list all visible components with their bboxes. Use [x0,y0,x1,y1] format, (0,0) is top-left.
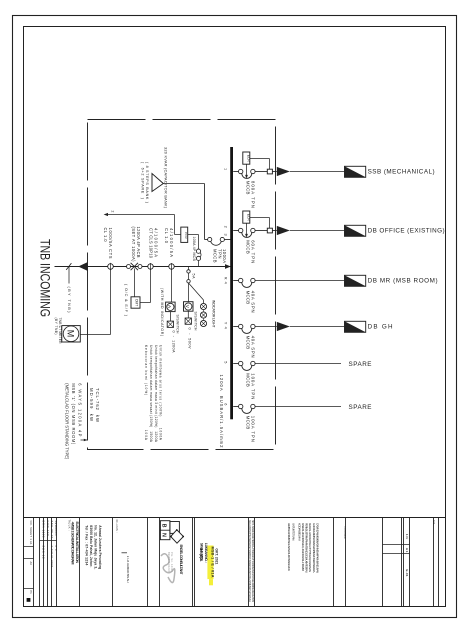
highlight drawing number [207,546,213,580]
MCCB feeder 5 right pole [251,361,255,365]
wire MCB to PFR [198,235,200,250]
svg-text:A1: A1 [405,548,409,553]
wire feeder 5 spare tail [255,363,341,365]
wire feeder 6 stub from busbar [233,406,238,408]
svg-text:DMT: DMT [135,299,139,306]
wire feeder 3 to DB symbol [255,280,344,282]
MCCB feeder 2 left pole [239,228,243,232]
title block divider 5 [56,518,58,607]
MCCB feeder 5 arc [242,365,252,370]
title block divider 8 [147,518,149,607]
logo BN outer box [160,521,170,540]
MCCB feeder 6 left pole [239,404,243,408]
MSB enclosure outline [88,120,276,450]
logo diamond dot 3 [182,536,184,538]
wire fuse branch [188,267,190,302]
control run arrowhead [104,213,108,216]
svg-text:P1: P1 [29,591,33,595]
busbar feed arrow [225,264,231,269]
title block divider 12 [248,518,250,607]
wire CT to kW meter [110,269,112,334]
ZCT feeder 1 [267,169,272,174]
MCCB feeder 3 right pole [251,278,255,282]
wire ELR to ZCT 1 [250,158,270,160]
MCCB feeder 3 left pole [239,278,243,282]
wire lamp link 1 [203,310,205,312]
capacitor bank delta [152,174,163,192]
svg-text:TRH 06.21: TRH 06.21 [50,521,54,540]
wire feeder 1 to DB symbol [290,171,345,173]
wire feeder 4 stub from busbar [233,326,238,328]
wire ELR trip link 1 [246,164,248,176]
ZCT feeder 2 [267,228,272,233]
svg-text:( O/C & E/F ): ( O/C & E/F ) [124,284,128,317]
title block divider 3 [47,518,49,607]
DB symbol DB MR (MSB ROOM) [345,275,366,286]
svg-text:ELECTRICAL INSTALLATION+MSB 1: ELECTRICAL INSTALLATION+MSB 1 SCHEMATIC … [70,522,79,565]
title block divider 7 [112,518,114,607]
svg-text:ELR: ELR [246,155,250,163]
wire to indicator lights [189,283,204,300]
relay ELR feeder 1 [243,152,250,164]
TNB kW meter [62,326,81,342]
wire voltmeter to selector switch [187,311,189,318]
svg-text:1200A BUSBAR/1.5A/mm2: 1200A BUSBAR/1.5A/mm2 [219,375,224,449]
MCCB feeder 1 arc [242,173,252,178]
svg-text:B: B [161,524,167,528]
signature line [122,552,128,554]
svg-text:NOTA : SEMUA KERJA HENDAKLAH M: NOTA : SEMUA KERJA HENDAKLAH MENGIKUT SP… [251,520,254,602]
wire ammeter to selector switch [169,312,171,322]
MCCB feeder 4 arc [242,328,252,333]
svg-text:P.E. No. 12345BEM/2021/1234: P.E. No. 12345BEM/2021/1234 [167,552,174,573]
enclosure leader tick [81,439,88,441]
right cells h-line 1 [383,544,410,546]
incoming arrow [78,262,87,271]
title block divider 14 [333,518,335,607]
wire leader to BY TNB label [68,267,70,284]
svg-text:M: M [66,330,76,338]
logo diamond [171,530,184,543]
svg-text:0 - 1200A: 0 - 1200A [171,331,175,353]
wire lamp link 2 [203,318,205,320]
wire feeder 2 to ZCT [255,230,267,232]
logo diamond dot 2 [176,529,178,531]
svg-text:NO.: NO. [432,520,435,525]
title block divider 9 [159,518,161,607]
svg-text:KELULUSAN PIHAK BERKUASA TEMPA: KELULUSAN PIHAK BERKUASA TEMPATAN. SEMUA… [248,520,251,602]
svg-text:CHD 130: CHD 130 [46,521,50,537]
wire feeder 4 inside panel [255,326,277,328]
MCCB feeder 1 right pole [251,169,255,173]
svg-text:MSB-1 / E / 01A: MSB-1 / E / 01A [211,547,215,578]
svg-text:4/1000/5ACT CLS 10P10: 4/1000/5ACT CLS 10P10 [149,228,159,259]
wire feeder 4 to DB symbol [290,326,345,328]
MCCB feeder 2 arc [242,232,252,237]
svg-text:DB GH: DB GH [368,324,393,331]
right cells h-line 2 [383,553,410,555]
svg-text:N: N [161,533,167,537]
title block divider 19 [409,518,411,607]
ammeter selector switch [167,321,173,327]
ELR trip arrowhead 2 [245,234,248,238]
svg-text:SEMAKAN: SEMAKAN [54,521,58,536]
svg-text:SSB (MECHANICAL): SSB (MECHANICAL) [368,169,435,176]
CT 4/1000/5A CLS 10P10 [148,264,153,269]
relay PFR (capacitor control) [181,227,188,242]
MCCB feeder 4 left pole [239,324,243,328]
wire CT to ammeter [171,269,173,302]
svg-text:ENGEL CONSULTANT: ENGEL CONSULTANT [179,545,183,576]
wire feeder 5 stub from busbar [233,363,238,365]
title block divider 16 [382,518,384,607]
feeder 4 outgoing arrow [277,322,290,331]
svg-text:5: 5 [224,361,228,363]
wire ZCT to panel edge 2 [272,230,276,232]
svg-text:Ir. HJ. AHMAD BIN ALI: Ir. HJ. AHMAD BIN ALI [126,556,130,583]
CT 4/1000/5A CL 1.0 [169,264,174,269]
MCCB feeder 6 arc [242,408,252,413]
ACB 1200A 4P - cross [131,263,138,270]
svg-text:TNB INCOMING: TNB INCOMING [37,239,53,317]
ammeter A [166,302,176,312]
title block divider 20 [433,518,435,607]
signature scribble [161,554,175,583]
svg-text:320 KVAR (CAPACITOR BANK): 320 KVAR (CAPACITOR BANK) [163,147,168,209]
svg-text:0 - 500V: 0 - 500V [187,328,191,349]
svg-text:TCL-762 kWMD-599 kW: TCL-762 kWMD-599 kW [89,388,100,423]
MCCB feeder 4 right pole [251,324,255,328]
svg-text:S/SWITCH: S/SWITCH [194,312,198,332]
logo small box [170,522,180,534]
svg-text:DRN 1205: DRN 1205 [42,521,46,539]
svg-text:SUK 12: SUK 12 [42,546,46,560]
indicator light Y [200,312,206,318]
svg-text:SPARE: SPARE [349,404,372,411]
svg-text:NO. SHEET 1 A1: NO. SHEET 1 A1 [29,521,33,546]
svg-text:ELR: ELR [246,214,250,222]
busbar 1200A [230,147,233,419]
svg-text:2 3: 2 3 [224,226,228,236]
svg-text:100A 4P MCB: 100A 4P MCB [192,237,196,262]
svg-text:1/1: 1/1 [405,534,409,539]
svg-text:2: 2 [111,211,115,213]
ELR trip arrowhead 1 [245,175,248,179]
svg-text:DILUKIS :: DILUKIS : [115,520,118,533]
svg-text:PFR: PFR [184,232,188,239]
title block divider 0 [33,518,35,607]
wire capacitor power run [205,239,208,241]
indicator light B [200,320,206,326]
wire feeder 2 stub from busbar [233,230,238,232]
wire ELR to ZCT 2 [250,217,270,219]
feeder 1 outgoing arrow [277,167,290,176]
voltmeter selector switch [185,318,191,324]
wire feeder 1 stub from busbar [233,171,238,173]
highlight drawing number 2 [209,579,213,585]
wire PFR control run [175,234,181,236]
svg-text:SPARE: SPARE [349,361,372,368]
title block divider 6 [79,518,81,607]
svg-text:LUKISAN: LUKISAN [343,527,346,539]
title block divider 21 [438,518,440,607]
MCCB 1000A TPN [208,237,212,241]
wire DMT to protection CT [140,302,151,304]
DB symbol DB OFFICE (EXISTING) [345,225,366,236]
svg-text:(BY TNB): (BY TNB) [67,287,71,313]
MCCB feeder 6 right pole [251,404,255,408]
svg-text:Ahmad Jurutera PerundingNo. 12: Ahmad Jurutera PerundingNo. 12, Jalan Ma… [84,525,102,569]
svg-text:6: 6 [224,403,228,405]
wire ZCT to panel edge 1 [272,171,276,173]
MCCB feeder 3 arc [242,282,252,287]
wire ACB to DMT relay [134,269,136,298]
title block divider 2 [43,518,45,607]
ACB 1200A 4P - left stab [127,265,131,269]
title block divider 15 [345,518,347,607]
svg-text:( 8 STEPS BANK )( 6+2 SPARE: ( 8 STEPS BANK )( 6+2 SPARE ) [141,162,149,203]
ACB 1200A 4P - right stab [138,265,142,269]
DB symbol DB GH [345,321,366,332]
svg-text:Untuk membawa arus terus (100%: Untuk membawa arus terus (100%) 1000AUnt… [144,345,163,443]
title block divider 10 [192,518,194,607]
logo diamond dot 1 [170,536,172,538]
svg-text:1200A 4P ACB(SET AT 1000A): 1200A 4P ACB(SET AT 1000A) [131,227,141,263]
revision column divider a [24,546,34,548]
svg-text:DB OFFICE (EXISTING): DB OFFICE (EXISTING) [368,228,445,235]
wire main to capacitor MCB [198,261,200,267]
svg-text:TAJUK :: TAJUK : [67,520,70,531]
revision column divider b [24,558,34,560]
indicator light R [200,303,206,309]
wire feeder 6 spare tail [255,406,341,408]
wire feeder 2 to DB symbol [290,230,345,232]
svg-text:INDICATOR LIGHT: INDICATOR LIGHT [212,300,216,328]
wire feeder 1 to ZCT [255,171,267,173]
svg-text:5A: 5A [191,274,195,280]
title block divider 17 [401,518,403,607]
svg-text:OKT. 2021: OKT. 2021 [215,548,219,564]
feeder 2 outgoing arrow [277,226,290,235]
relay DMT (O/C and E/F) [131,297,140,308]
MCCB feeder 5 left pole [239,361,243,365]
voltmeter V [184,302,194,312]
svg-text:00: 00 [54,546,58,552]
svg-text:1: 1 [224,168,228,170]
svg-text:1 JULAI 2021: 1 JULAI 2021 [50,546,54,569]
title block divider 4 [51,518,53,607]
title block top edge [24,517,446,519]
svg-text:A3: A3 [29,562,33,566]
DB symbol SSB (MECHANICAL) [345,166,366,177]
MCCB feeder 2 right pole [251,228,255,232]
logo BN divider [160,529,170,531]
MCB 100A 4P [196,256,200,260]
fuse 5A [187,270,190,273]
incoming cable slash [66,263,71,270]
relay ELR feeder 2 [243,211,250,223]
title block divider 11 [194,518,196,607]
CT 1000/5A (TNB metering) [108,264,114,270]
wire ELR trip link 2 [246,223,248,235]
svg-text:E-01: E-01 [405,569,409,576]
wire feeder 3 stub from busbar [233,280,238,282]
wire incoming main line [55,266,231,268]
MCCB feeder 1 left pole [239,169,243,173]
header cells divider [40,540,57,542]
svg-text:DB MR (MSB ROOM): DB MR (MSB ROOM) [368,278,438,285]
title block divider 1 [39,518,41,607]
title block divider 18 [403,518,405,607]
revision column divider c [24,588,34,590]
revision column mark [27,598,31,602]
svg-text:(WITH MD INDICATOR): (WITH MD INDICATOR) [160,288,164,336]
title block divider 13 [254,518,256,607]
